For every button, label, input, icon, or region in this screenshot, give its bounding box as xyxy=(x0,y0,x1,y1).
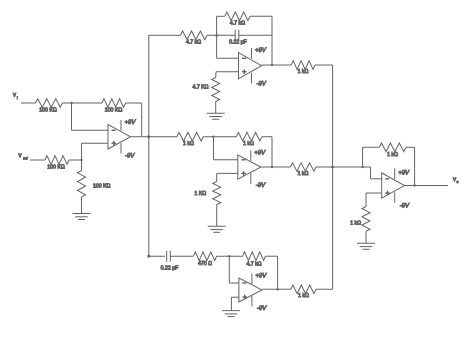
ground GND3 xyxy=(208,226,226,232)
label U3 +9V xyxy=(254,150,266,156)
wire top loop left vertical to U2 inverting input xyxy=(217,16,239,58)
wire R16 to U5 output xyxy=(406,147,416,186)
wire left bus corner to C2 xyxy=(147,255,165,258)
svg-text:100 KΩ: 100 KΩ xyxy=(39,108,57,114)
wire R9 to node C xyxy=(203,136,236,138)
svg-text:0.22 μF: 0.22 μF xyxy=(229,40,247,46)
svg-text:4.7 kΩ: 4.7 kΩ xyxy=(186,40,201,46)
svg-text:+9V: +9V xyxy=(255,273,267,279)
label U2 +9V xyxy=(255,48,267,54)
node Vi input label xyxy=(13,93,18,100)
svg-text:+9V: +9V xyxy=(125,120,137,126)
svg-text:100 KΩ: 100 KΩ xyxy=(105,108,123,114)
label U1 +9V xyxy=(125,120,137,126)
node right bus junction xyxy=(331,166,334,169)
op-amp U5 xyxy=(382,168,405,202)
svg-text:1 kΩ: 1 kΩ xyxy=(298,293,309,299)
label U5 -9V xyxy=(400,204,410,210)
svg-text:1 kΩ: 1 kΩ xyxy=(298,171,309,177)
wire R15 to right bus xyxy=(316,288,333,290)
node Vref input label xyxy=(19,153,29,160)
resistor R1 100 K&#937; xyxy=(36,99,63,114)
resistor R12 1 k&#937; output xyxy=(291,163,317,177)
svg-text:+9V: +9V xyxy=(255,48,267,54)
node C junction to U3 inverting input xyxy=(212,136,238,160)
svg-text:100 KΩ: 100 KΩ xyxy=(93,184,111,190)
resistor R11 1 K&#937; to ground xyxy=(195,182,221,205)
wire R2 to U1 output xyxy=(126,103,142,137)
svg-text:1 kΩ: 1 kΩ xyxy=(183,141,194,147)
wire U5 non-inverting input to R17 xyxy=(366,193,382,207)
wire top loop right vertical to U2 output xyxy=(271,16,273,66)
wire U4 non-inverting input to ground xyxy=(231,297,239,310)
wire U1 output to left bus xyxy=(131,136,149,138)
svg-text:-9V: -9V xyxy=(400,204,410,210)
svg-text:v: v xyxy=(13,93,16,99)
op-amp U4 xyxy=(239,273,262,306)
svg-text:1 kΩ: 1 kΩ xyxy=(298,69,309,75)
wire R11 to ground xyxy=(216,205,218,227)
wire U5 output Vo xyxy=(405,185,449,187)
svg-text:1 kΩ: 1 kΩ xyxy=(387,152,398,158)
svg-text:o: o xyxy=(457,180,459,184)
resistor R8 1 k&#937; output xyxy=(291,61,315,75)
ground GND2 xyxy=(207,113,225,119)
svg-text:100 KΩ: 100 KΩ xyxy=(47,165,65,171)
op-amp U3 xyxy=(238,150,261,183)
resistor R10 1 k&#937; feedback xyxy=(236,132,262,146)
wire R12 to summing node xyxy=(316,166,363,168)
wire R13 to node D xyxy=(217,255,243,257)
svg-text:4.7 kΩ: 4.7 kΩ xyxy=(246,262,261,268)
resistor R5 4.7 k&#937; xyxy=(180,31,207,46)
svg-text:i: i xyxy=(17,96,18,100)
op-amp U2 xyxy=(239,48,262,83)
svg-text:-9V: -9V xyxy=(256,183,266,189)
resistor R7 4.7 K&#937; to ground xyxy=(193,78,220,102)
wire Vi input xyxy=(21,102,36,104)
wire R7 to ground xyxy=(215,102,217,114)
wire R10 to U3 output xyxy=(262,137,273,169)
wire left bus to R5 xyxy=(149,34,181,36)
resistor R17 1 k&#937; to ground xyxy=(350,207,370,232)
wire node B down to R4 xyxy=(81,160,83,171)
resistor R6 4.7 k&#937; feedback xyxy=(217,12,272,26)
label U4 -9V xyxy=(257,306,267,312)
node Vo output label xyxy=(453,177,459,184)
resistor R4 100 K&#937; to ground xyxy=(78,171,111,198)
wire Vref input xyxy=(30,159,45,161)
op-amp U1 xyxy=(108,120,131,154)
svg-text:+9V: +9V xyxy=(254,150,266,156)
label U3 -9V xyxy=(256,183,266,189)
wire R17 to ground xyxy=(365,231,367,243)
wire R4 to ground xyxy=(81,197,83,214)
wire U3 non-inverting input to R11 xyxy=(217,173,238,181)
svg-text:-9V: -9V xyxy=(257,82,267,88)
svg-text:470 Ω: 470 Ω xyxy=(198,261,212,267)
wire U2 output xyxy=(262,64,292,66)
wire U4 output xyxy=(262,288,291,290)
ground GND1 xyxy=(73,214,91,220)
resistor R13 470 &#937; xyxy=(193,252,216,267)
svg-text:+9V: +9V xyxy=(398,171,410,177)
wire feedback left vertical xyxy=(361,147,379,168)
wire right bus vertical xyxy=(332,65,334,289)
svg-text:1 KΩ: 1 KΩ xyxy=(195,191,207,197)
wire R5 to top loop xyxy=(207,34,218,37)
resistor R9 1 k&#937; xyxy=(177,132,203,146)
svg-text:4.7 KΩ: 4.7 KΩ xyxy=(193,85,209,91)
resistor R3 100 K&#937; xyxy=(45,156,69,171)
node A junction to U1 inverting input xyxy=(70,102,108,131)
svg-text:0.22 μF: 0.22 μF xyxy=(161,266,179,272)
wire R3 to node B xyxy=(69,159,82,161)
wire left bus vertical xyxy=(148,35,150,256)
wire U3 output xyxy=(261,166,291,168)
wire R14 to U4 output xyxy=(266,256,279,290)
resistor R2 100 K&#937; feedback xyxy=(102,99,126,114)
svg-text:v: v xyxy=(19,153,22,159)
capacitor C1 0.22 &#956;F feedback xyxy=(217,30,272,46)
svg-text:1 kΩ: 1 kΩ xyxy=(243,141,254,147)
svg-text:ref: ref xyxy=(23,156,28,160)
resistor R16 1 k&#937; feedback xyxy=(379,143,406,158)
label U4 +9V xyxy=(255,273,267,279)
node B wire to U1 non-inverting input xyxy=(80,143,108,161)
svg-text:4.7 kΩ: 4.7 kΩ xyxy=(230,20,245,26)
ground GND4 xyxy=(222,311,240,317)
ground GND5 xyxy=(357,243,375,249)
wire U2 non-inverting input to R7 xyxy=(216,72,239,78)
label U5 +9V xyxy=(398,171,410,177)
svg-text:-9V: -9V xyxy=(125,154,135,160)
svg-text:1 kΩ: 1 kΩ xyxy=(350,221,361,227)
node D junction to U4 inverting input xyxy=(228,255,239,283)
node left bus junction xyxy=(147,135,150,138)
label U2 -9V xyxy=(257,82,267,88)
resistor R14 4.7 k&#937; feedback xyxy=(243,252,266,268)
resistor R15 1 k&#937; output xyxy=(291,285,316,299)
label U1 -9V xyxy=(125,154,135,160)
svg-text:-9V: -9V xyxy=(257,306,267,312)
wire R8 to right bus xyxy=(315,64,333,66)
capacitor C2 0.22 &#956;F input xyxy=(161,251,179,272)
wire C2 to R13 xyxy=(170,255,193,257)
wire left bus to R9 xyxy=(149,136,177,138)
wire summing node to U5 inverting input xyxy=(363,167,382,179)
wire R1 to node A xyxy=(63,102,103,104)
